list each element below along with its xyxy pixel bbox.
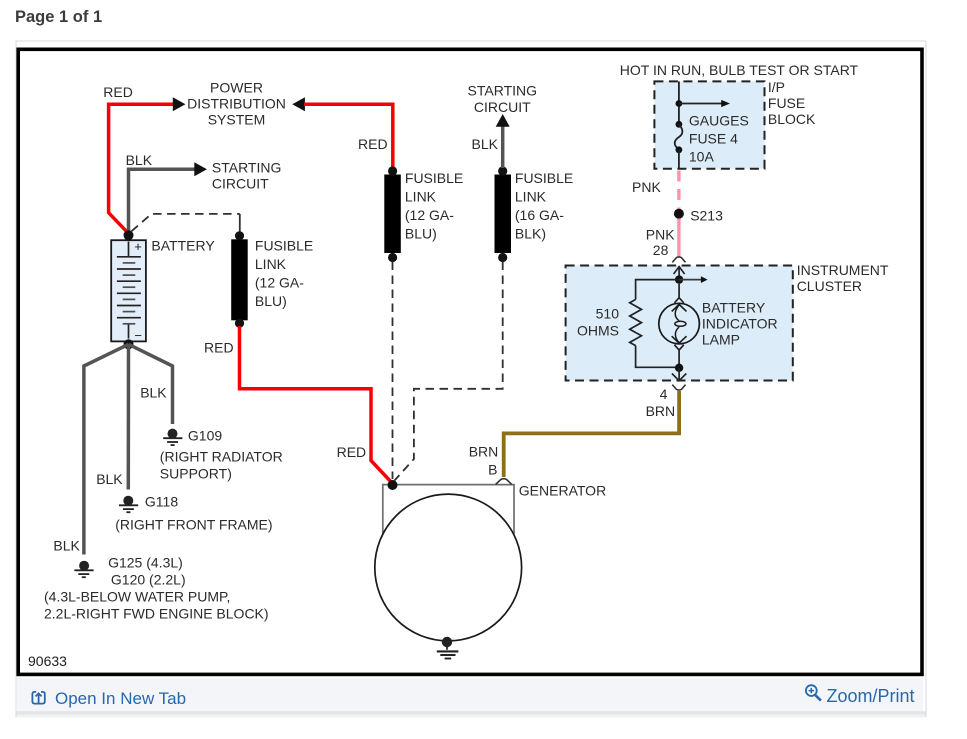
svg-text:BLK): BLK) (515, 226, 546, 242)
resistor 510 OHMS (630, 300, 642, 346)
svg-text:BLK: BLK (126, 152, 153, 168)
svg-text:RED: RED (337, 444, 367, 460)
svg-text:28: 28 (653, 242, 669, 258)
svg-text:SYSTEM: SYSTEM (208, 111, 266, 127)
svg-text:FUSIBLE: FUSIBLE (405, 170, 463, 186)
arrow branch inside cluster (679, 279, 701, 281)
junction cluster top (675, 275, 683, 283)
lamp connector chevron above (674, 298, 683, 303)
svg-text:LINK: LINK (255, 256, 287, 272)
svg-text:PNK: PNK (632, 179, 661, 195)
svg-text:G118: G118 (145, 494, 178, 510)
wire to cluster exit with chevron (678, 368, 680, 380)
svg-text:STARTING: STARTING (212, 159, 282, 175)
svg-text:INSTRUMENT: INSTRUMENT (797, 262, 889, 278)
node STARTING CIRCUIT (top) (468, 83, 538, 116)
svg-text:B: B (488, 462, 497, 478)
svg-text:PNK: PNK (646, 226, 675, 242)
svg-text:BLK: BLK (472, 136, 499, 152)
generator circle (375, 494, 522, 641)
label FUSIBLE LINK (12 GA- BLU) F1 (255, 238, 313, 310)
svg-text:FUSIBLE: FUSIBLE (515, 170, 573, 186)
dashed wire battery to fusible link F1 (132, 214, 240, 231)
wire resistor bottom (636, 346, 680, 368)
splice S213 (674, 209, 684, 219)
label 510 OHMS (577, 305, 619, 338)
svg-text:(RIGHT FRONT FRAME): (RIGHT FRONT FRAME) (115, 516, 272, 532)
wire PNK dashed fuse block to S213 (677, 171, 680, 210)
junction fuse feed (676, 100, 683, 107)
svg-text:LAMP: LAMP (702, 332, 740, 348)
svg-text:(16 GA-: (16 GA- (515, 207, 564, 223)
wire RED fusible link F2 to power distribution (304, 104, 393, 168)
svg-text:DISTRIBUTION: DISTRIBUTION (187, 95, 286, 111)
svg-text:Page 1 of 1: Page 1 of 1 (15, 8, 102, 26)
junction battery negative (124, 339, 134, 349)
svg-text:HOT IN RUN, BULB TEST OR START: HOT IN RUN, BULB TEST OR START (620, 62, 859, 78)
svg-text:(4.3L-BELOW WATER PUMP,: (4.3L-BELOW WATER PUMP, (44, 589, 230, 605)
svg-text:RED: RED (358, 136, 388, 152)
svg-text:FUSE 4: FUSE 4 (689, 130, 738, 146)
svg-text:4: 4 (660, 386, 668, 402)
svg-text:OHMS: OHMS (577, 322, 619, 338)
generator ground (437, 637, 459, 659)
open-in-new-tab icon (32, 692, 44, 704)
zoom/print magnifier icon (806, 685, 821, 700)
svg-text:CIRCUIT: CIRCUIT (474, 99, 531, 115)
diagram frame (18, 49, 922, 674)
svg-text:RED: RED (103, 84, 133, 100)
svg-text:FUSIBLE: FUSIBLE (255, 238, 313, 254)
wire RED battery to power distribution (109, 104, 174, 233)
wire inside fuse block (678, 81, 680, 123)
arrowhead to starting circuit (194, 162, 207, 176)
svg-text:(12 GA-: (12 GA- (405, 207, 454, 223)
ground G118 (119, 496, 138, 513)
label GAUGES FUSE 4 10A (689, 112, 749, 164)
svg-text:RED: RED (204, 340, 234, 356)
label (RIGHT RADIATOR SUPPORT) (160, 448, 283, 481)
svg-text:−: − (134, 328, 142, 343)
battery indicator lamp (659, 303, 700, 344)
label INSTRUMENT CLUSTER (797, 262, 889, 294)
svg-text:CIRCUIT: CIRCUIT (212, 175, 269, 191)
svg-text:POWER: POWER (210, 79, 263, 95)
connector B at generator (496, 479, 512, 485)
svg-text:CLUSTER: CLUSTER (797, 278, 862, 294)
wire BLK battery to starting circuit (129, 169, 196, 232)
svg-text:Zoom/Print: Zoom/Print (827, 686, 915, 706)
junction generator RED/dashed node (388, 480, 398, 490)
svg-text:SUPPORT): SUPPORT) (160, 465, 232, 481)
connector pin 4 below cluster (672, 385, 685, 390)
svg-text:BLU): BLU) (255, 293, 287, 309)
branch wire to resistor (636, 280, 680, 300)
instrument cluster box (566, 266, 793, 381)
svg-text:BLK: BLK (53, 537, 80, 553)
svg-text:(RIGHT RADIATOR: (RIGHT RADIATOR (160, 448, 283, 464)
arrowhead left from fusible link F2 feed (292, 97, 305, 111)
svg-text:G125 (4.3L): G125 (4.3L) (108, 555, 183, 571)
arrow branch inside fuse block (679, 103, 722, 105)
connector pin 28 at cluster (672, 257, 685, 262)
svg-text:510: 510 (596, 305, 620, 321)
node POWER DISTRIBUTION SYSTEM (187, 79, 286, 127)
junction battery positive (124, 230, 134, 240)
svg-text:Open In New Tab: Open In New Tab (55, 689, 186, 708)
svg-text:BLK: BLK (96, 471, 123, 487)
svg-text:2.2L-RIGHT FWD ENGINE BLOCK): 2.2L-RIGHT FWD ENGINE BLOCK) (44, 606, 269, 622)
dashed wire F2 to generator junction (392, 262, 394, 480)
svg-text:S213: S213 (690, 208, 723, 224)
label BATTERY INDICATOR LAMP (702, 300, 778, 348)
svg-text:BLK: BLK (140, 385, 167, 401)
fusible link F3 (495, 175, 512, 254)
svg-text:INDICATOR: INDICATOR (702, 316, 778, 332)
svg-text:G120 (2.2L): G120 (2.2L) (111, 572, 186, 588)
svg-text:(12 GA-: (12 GA- (255, 275, 304, 291)
svg-text:FUSE: FUSE (768, 95, 805, 111)
dashed wire F3 to generator junction (395, 262, 503, 481)
ground G125/G120 (74, 561, 93, 578)
label (4.3L-BELOW WATER PUMP, 2.2L-RIGHT FWD ENGINE BLOCK) (44, 589, 269, 622)
svg-text:BLOCK: BLOCK (768, 111, 816, 127)
arrowhead up to starting circuit (496, 114, 510, 127)
svg-text:GENERATOR: GENERATOR (519, 482, 606, 498)
svg-text:STARTING: STARTING (468, 83, 538, 99)
svg-text:BATTERY: BATTERY (151, 237, 215, 253)
wire cluster top (678, 267, 680, 280)
svg-text:BRN: BRN (646, 403, 676, 419)
svg-text:GAUGES: GAUGES (689, 112, 749, 128)
I/P fuse block box (654, 81, 764, 168)
svg-text:LINK: LINK (405, 189, 437, 205)
fusible link F1 (231, 239, 248, 320)
toolbar bottom shadow (17, 711, 926, 715)
junction cluster bottom (675, 364, 683, 372)
arrowhead to power distribution system (173, 97, 186, 111)
toolbar background (17, 678, 923, 711)
chevron entering cluster (674, 267, 685, 274)
wire BLK battery negative to G118 (127, 344, 131, 489)
svg-text:+: + (134, 239, 142, 254)
fusible link F2 (384, 175, 401, 254)
wire junction to lamp (678, 284, 680, 298)
label I/P FUSE BLOCK (768, 79, 816, 127)
wire stub to F1 top (239, 214, 241, 232)
wire BLK F3 up to starting circuit (501, 127, 505, 169)
wire BLK battery negative to G109 (129, 344, 173, 424)
svg-text:BLU): BLU) (405, 226, 437, 242)
svg-text:BRN: BRN (469, 443, 499, 459)
wire BLK battery negative to G125 (84, 344, 129, 554)
node STARTING CIRCUIT (left) (212, 159, 282, 191)
label FUSIBLE LINK (16 GA- BLK) F3 (515, 170, 573, 242)
svg-text:LINK: LINK (515, 189, 547, 205)
wire RED fusible link F1 to generator (240, 326, 393, 484)
battery (111, 239, 146, 343)
wire PNK S213 to instrument cluster (677, 219, 680, 257)
wire lamp to cluster bottom junction (678, 349, 680, 368)
svg-text:G109: G109 (188, 427, 222, 443)
generator body rectangle (383, 485, 514, 535)
ground G109 (163, 429, 182, 446)
label FUSIBLE LINK (12 GA- BLU) F2 (405, 170, 463, 242)
svg-text:I/P: I/P (768, 79, 785, 95)
svg-text:90633: 90633 (28, 653, 67, 669)
wire BRN cluster to generator (504, 391, 679, 477)
fuse element GAUGES FUSE 4 10A (676, 121, 683, 128)
svg-text:BATTERY: BATTERY (702, 300, 766, 316)
svg-text:10A: 10A (689, 148, 715, 164)
